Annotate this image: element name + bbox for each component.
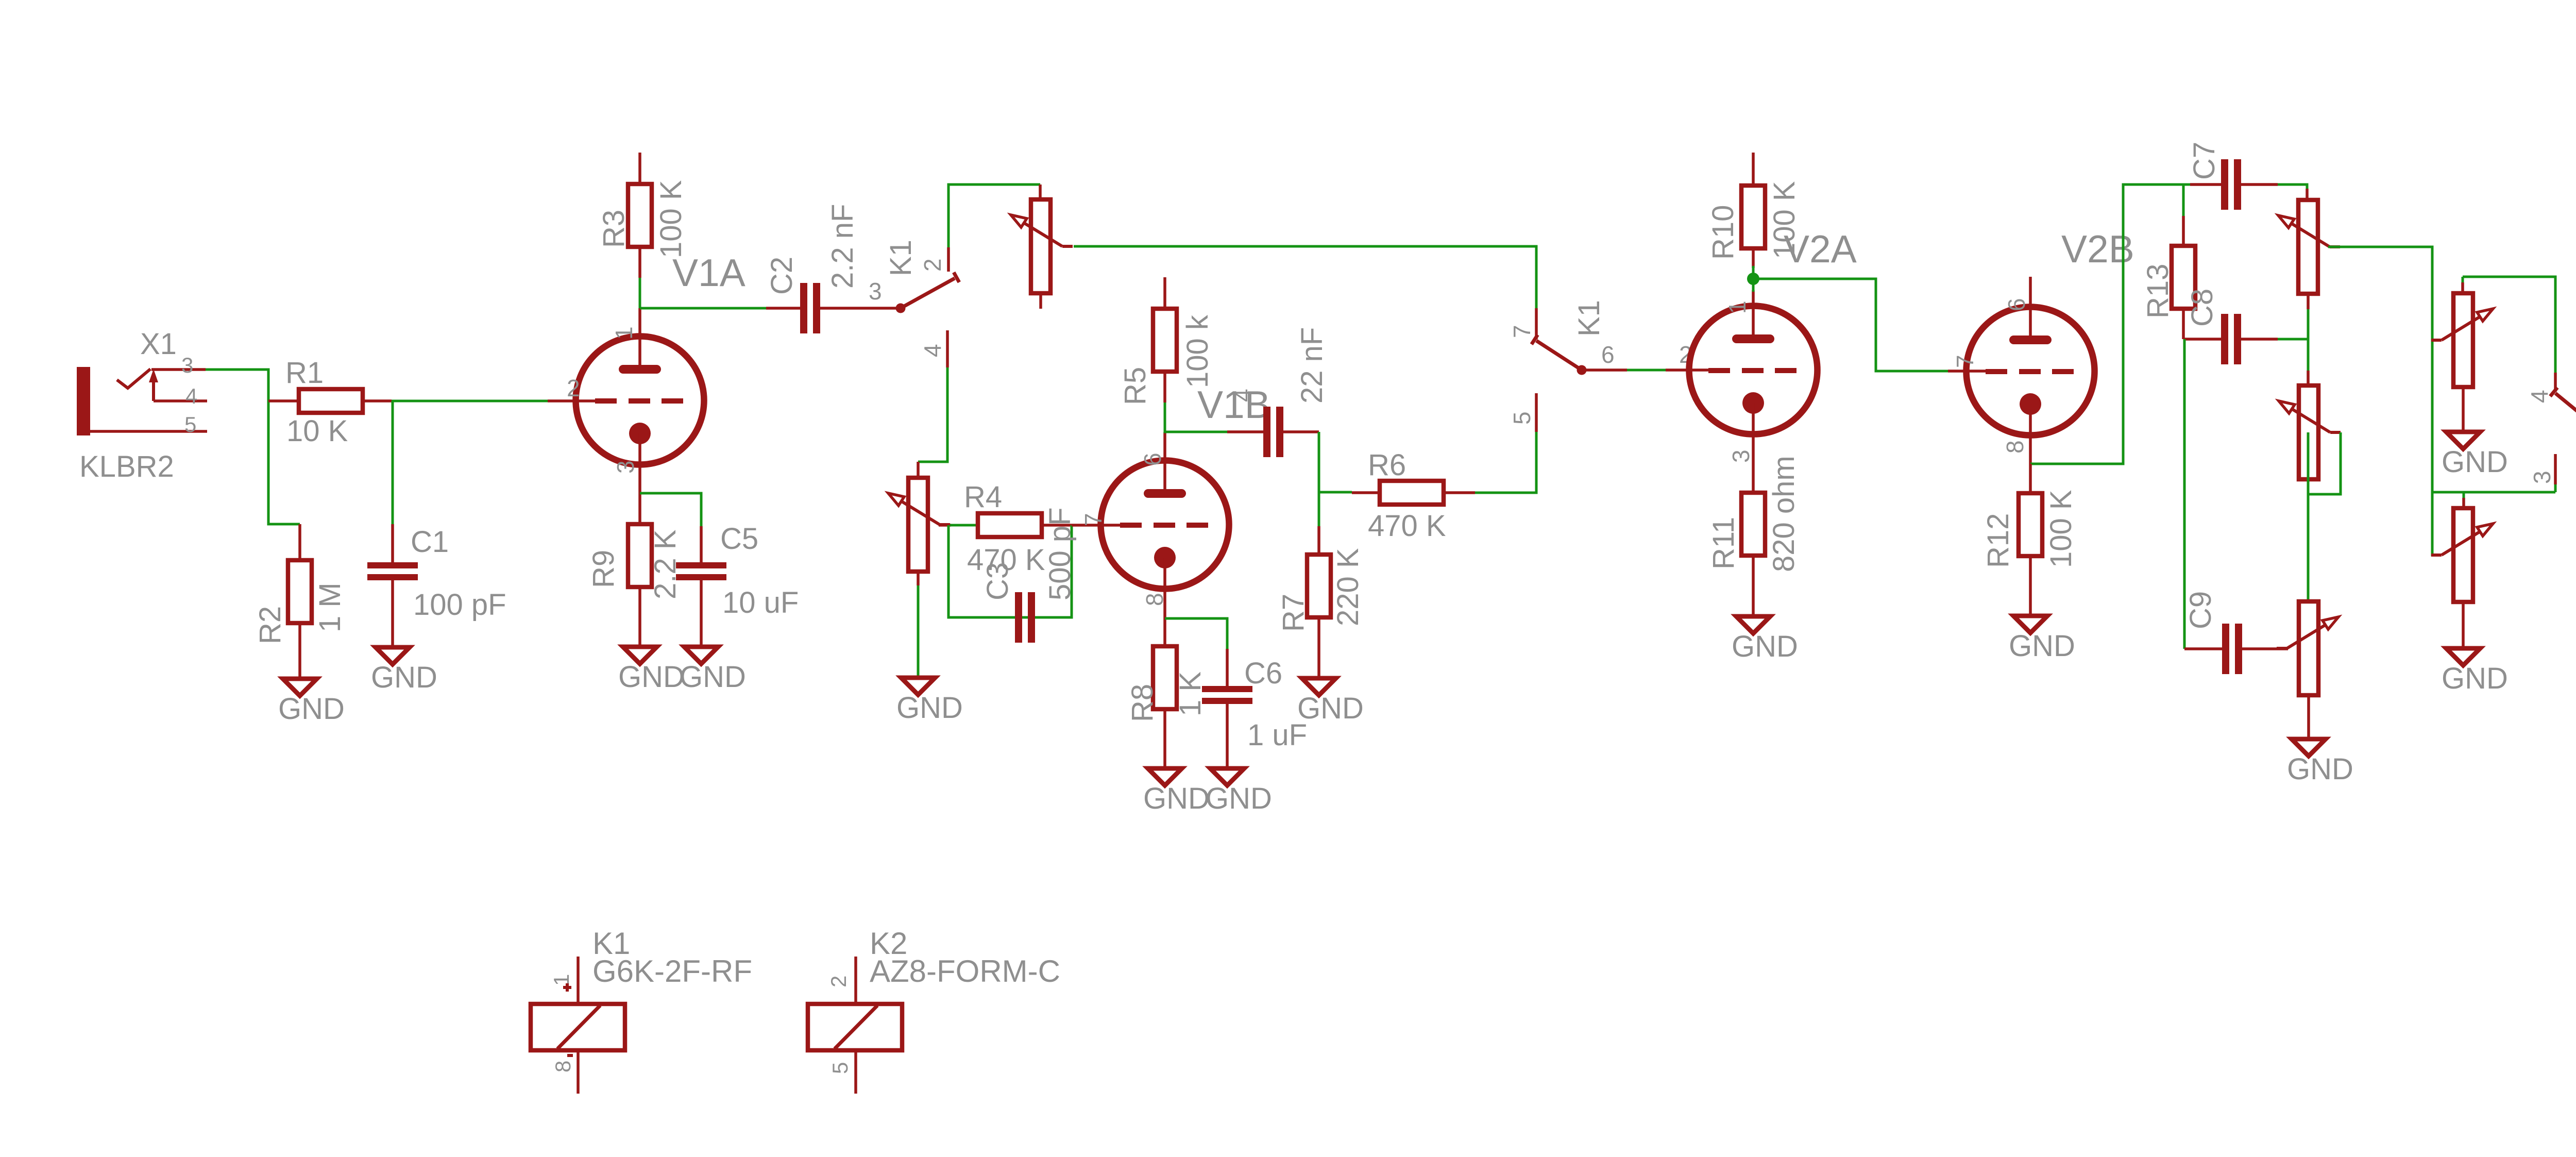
svg-text:5: 5 [184,412,196,437]
svg-text:7: 7 [1080,513,1107,526]
svg-text:R8: R8 [1126,684,1159,722]
svg-text:6: 6 [1601,341,1615,368]
svg-text:500 pF: 500 pF [1043,507,1077,600]
svg-text:100 K: 100 K [1768,181,1801,259]
svg-text:R9: R9 [587,550,620,588]
svg-text:G6K-2F-RF: G6K-2F-RF [592,954,752,988]
svg-text:X1: X1 [140,327,177,361]
svg-text:GND: GND [680,660,746,694]
svg-text:GND: GND [2287,752,2353,786]
svg-text:6: 6 [1139,452,1166,466]
svg-text:KLBR2: KLBR2 [79,450,174,483]
svg-text:10 uF: 10 uF [722,586,799,619]
svg-text:1 K: 1 K [1174,672,1207,716]
svg-text:C7: C7 [2188,142,2221,180]
svg-text:3: 3 [869,278,882,305]
svg-text:7: 7 [1509,325,1535,338]
svg-text:C9: C9 [2184,591,2217,629]
svg-text:2: 2 [567,375,580,401]
svg-text:R13: R13 [2141,264,2175,318]
svg-text:8: 8 [551,1061,575,1072]
svg-text:1 M: 1 M [313,582,347,632]
svg-text:1: 1 [549,974,573,986]
svg-text:22 nF: 22 nF [1295,327,1329,404]
svg-text:R11: R11 [1707,517,1740,569]
svg-text:R7: R7 [1277,594,1310,632]
svg-text:100 K: 100 K [654,180,688,258]
svg-text:R5: R5 [1118,367,1152,405]
svg-text:470 K: 470 K [1368,509,1446,543]
svg-text:C5: C5 [720,522,758,556]
svg-text:GND: GND [1143,782,1210,815]
svg-text:4: 4 [185,384,197,408]
svg-text:8: 8 [2002,440,2028,454]
svg-text:K1: K1 [884,240,918,276]
svg-text:100 K: 100 K [2044,490,2078,568]
svg-text:K1: K1 [1572,300,1606,337]
svg-text:100 pF: 100 pF [413,588,506,622]
svg-text:3: 3 [612,460,639,474]
svg-text:C6: C6 [1244,657,1282,690]
svg-text:2: 2 [919,258,946,272]
svg-text:R4: R4 [964,480,1002,514]
svg-text:2: 2 [826,976,851,987]
svg-text:GND: GND [1206,782,1272,815]
svg-text:GND: GND [2442,662,2508,695]
svg-text:220 K: 220 K [1331,548,1365,626]
svg-text:3: 3 [2529,471,2555,484]
svg-text:5: 5 [828,1062,852,1074]
svg-text:6: 6 [2003,298,2030,311]
svg-text:C3: C3 [981,562,1014,600]
svg-text:4: 4 [2526,390,2553,403]
svg-text:4: 4 [1229,389,1256,402]
svg-text:3: 3 [181,353,193,377]
svg-text:820 ohm: 820 ohm [1767,456,1801,572]
svg-text:R10: R10 [1706,205,1740,260]
svg-text:1 uF: 1 uF [1247,718,1307,752]
svg-text:C1: C1 [411,525,449,559]
svg-text:R6: R6 [1368,448,1406,482]
svg-text:R3: R3 [597,210,631,248]
svg-text:2.2 nF: 2.2 nF [826,204,859,289]
svg-text:C8: C8 [2185,289,2219,327]
svg-text:R2: R2 [253,606,287,644]
svg-text:GND: GND [371,661,437,694]
svg-text:1: 1 [1724,300,1751,314]
svg-text:100 k: 100 k [1181,314,1214,388]
svg-text:10 K: 10 K [286,414,348,448]
svg-text:7: 7 [1952,355,1978,368]
svg-text:R1: R1 [285,356,324,390]
svg-text:8: 8 [1141,593,1168,606]
svg-text:1: 1 [611,326,637,340]
svg-text:GND: GND [1297,692,1364,725]
svg-text:GND: GND [1732,630,1798,663]
svg-text:GND: GND [2442,445,2508,479]
svg-text:GND: GND [278,692,345,726]
svg-text:C2: C2 [765,257,799,295]
svg-text:AZ8-FORM-C: AZ8-FORM-C [870,954,1060,988]
svg-text:GND: GND [618,660,685,694]
svg-text:GND: GND [896,691,963,725]
svg-text:4: 4 [919,344,946,357]
svg-text:R12: R12 [1981,513,2015,568]
svg-text:GND: GND [2009,629,2075,663]
svg-text:3: 3 [1727,449,1754,463]
svg-text:5: 5 [1509,411,1535,425]
